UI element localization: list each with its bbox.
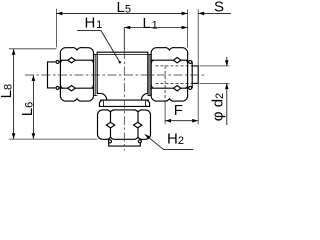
svg-text:L8: L8 [0, 84, 15, 98]
svg-text:S: S [214, 0, 224, 15]
svg-text:F: F [174, 102, 183, 119]
